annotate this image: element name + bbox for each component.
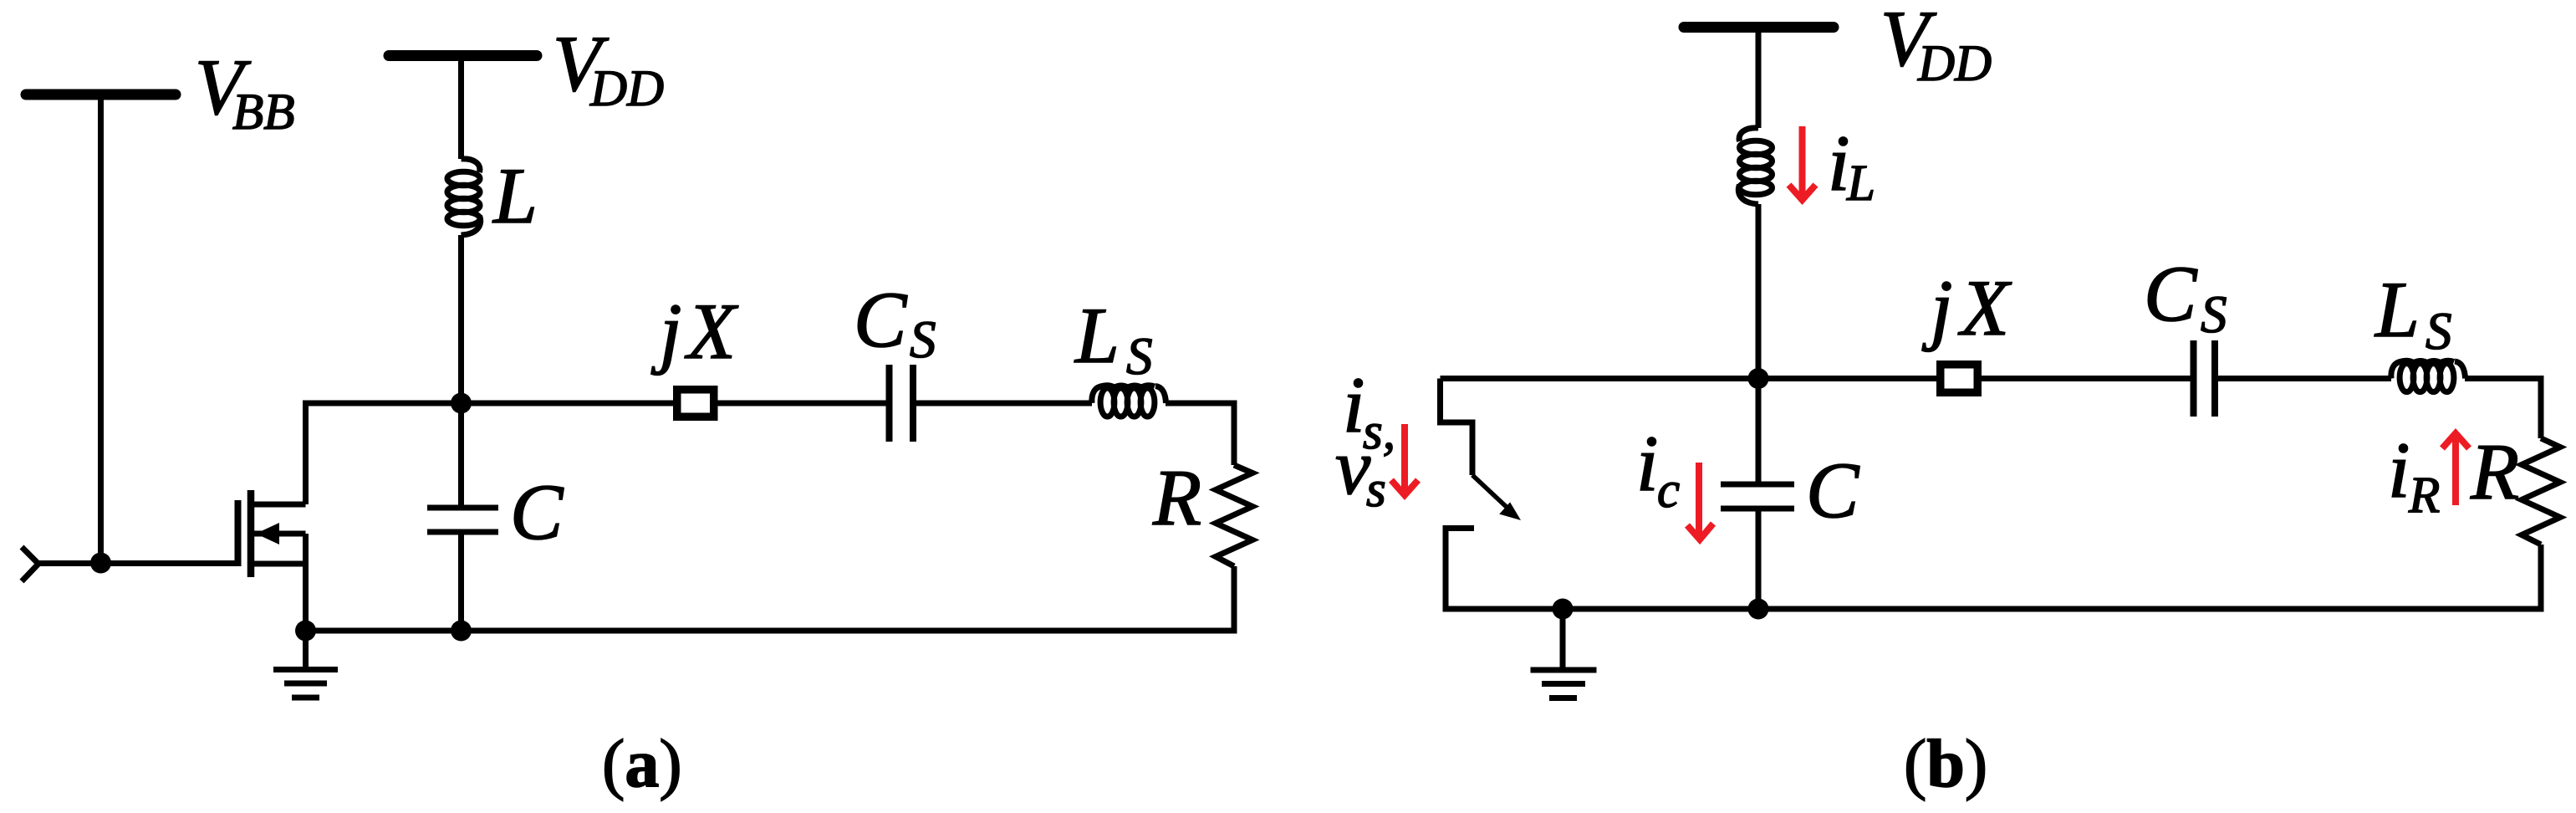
svg-text:X: X bbox=[1957, 263, 2012, 352]
jX box (a) bbox=[677, 390, 714, 417]
node C bottom dot (b) bbox=[1748, 599, 1769, 620]
VDD supply rail (a) bbox=[389, 50, 537, 61]
LS label (b) bbox=[2374, 265, 2452, 360]
svg-text:BB: BB bbox=[232, 84, 295, 141]
transistor M1 body arrow bbox=[256, 523, 279, 545]
switch upper terminal bbox=[1441, 379, 1473, 476]
transistor M1 source stub bbox=[251, 561, 306, 567]
svg-text:C: C bbox=[510, 468, 564, 556]
svg-text:S: S bbox=[1126, 327, 1153, 386]
wire VDD to inductor bbox=[458, 59, 464, 159]
VBB supply rail bbox=[26, 89, 176, 100]
svg-text:C: C bbox=[854, 275, 908, 364]
is label bbox=[1343, 360, 1395, 460]
wire right vertical top (a) bbox=[1232, 401, 1237, 466]
wire LS to corner (b) bbox=[2465, 376, 2544, 381]
wire inductor to node (b) bbox=[1756, 204, 1762, 379]
node C bottom dot bbox=[451, 621, 472, 642]
svg-text:L: L bbox=[492, 151, 538, 240]
svg-text:C: C bbox=[1806, 446, 1860, 534]
capacitor CS (b) bbox=[2194, 340, 2216, 417]
svg-text:X: X bbox=[684, 287, 739, 376]
switch blade bbox=[1472, 475, 1510, 510]
VBB label bbox=[195, 43, 295, 141]
resistor R (a) bbox=[1216, 465, 1252, 566]
wire source vertical bbox=[303, 534, 309, 631]
wire VDD to inductor (b) bbox=[1756, 31, 1762, 128]
inductor LS (b) bbox=[2391, 360, 2466, 391]
wire CS to LS (b) bbox=[2218, 376, 2391, 381]
svg-text:(b): (b) bbox=[1904, 725, 1987, 801]
wire LS to corner bbox=[1166, 401, 1237, 406]
switch blade arrowhead bbox=[1499, 502, 1521, 520]
CS label (b) bbox=[2144, 249, 2227, 344]
svg-text:R: R bbox=[1152, 453, 1201, 542]
capacitor CS (a) bbox=[890, 365, 914, 442]
VDD label (b) bbox=[1880, 0, 1992, 92]
svg-text:i: i bbox=[1636, 419, 1658, 508]
svg-text:i: i bbox=[2388, 426, 2410, 514]
wire CS to LS bbox=[916, 401, 1092, 406]
transistor M1 gate bar bbox=[235, 500, 242, 566]
node ground dot (b) bbox=[1553, 599, 1574, 620]
capacitor C (a) upper wire bbox=[458, 403, 464, 505]
LS label (a) bbox=[1074, 291, 1153, 386]
wire drain vertical bbox=[303, 401, 309, 505]
iL label bbox=[1828, 119, 1875, 212]
node drain dot (b) bbox=[1748, 368, 1769, 389]
svg-text:R: R bbox=[2470, 427, 2519, 516]
transistor M1 body stub bbox=[254, 531, 306, 537]
wire main horizontal (b) left part bbox=[1441, 376, 2191, 381]
svg-text:c: c bbox=[1657, 463, 1680, 519]
ic label bbox=[1636, 419, 1680, 519]
CS label (a) bbox=[854, 275, 936, 369]
resistor R (b) bbox=[2522, 438, 2560, 545]
current arrow is/vs bbox=[1391, 424, 1418, 495]
svg-text:S: S bbox=[2426, 302, 2452, 360]
switch lower terminal bbox=[1446, 529, 1474, 612]
inductor LS (a) bbox=[1092, 386, 1166, 417]
wire gate input bbox=[38, 560, 237, 566]
current arrow ic bbox=[1687, 463, 1713, 539]
ground (a) bbox=[273, 631, 338, 698]
capacitor C (b) lower wire bbox=[1756, 512, 1762, 610]
svg-text:(a): (a) bbox=[602, 725, 682, 801]
wire bottom (b) bbox=[1446, 606, 2544, 612]
capacitor C (a) plates bbox=[427, 508, 498, 532]
svg-text:S: S bbox=[2201, 285, 2227, 344]
current arrow iR bbox=[2442, 433, 2469, 505]
svg-text:C: C bbox=[2144, 249, 2198, 338]
transistor M1 channel bar bbox=[247, 490, 255, 577]
wire main horizontal (a) left part bbox=[306, 401, 887, 406]
svg-text:R: R bbox=[2408, 468, 2440, 524]
svg-text:L: L bbox=[2374, 265, 2420, 354]
wire right vertical top (b) bbox=[2538, 376, 2544, 438]
node drain dot bbox=[451, 393, 472, 414]
VDD label (a) bbox=[553, 19, 664, 117]
VDD supply rail (b) bbox=[1684, 22, 1834, 33]
svg-text:s: s bbox=[1366, 462, 1386, 518]
capacitor C (b) plates bbox=[1721, 484, 1794, 509]
node source dot bbox=[295, 621, 316, 642]
input terminal chevron bbox=[22, 547, 38, 581]
vs label bbox=[1335, 422, 1386, 518]
svg-text:L: L bbox=[1074, 291, 1120, 380]
wire inductor to node bbox=[458, 235, 464, 403]
svg-text:DD: DD bbox=[1917, 36, 1992, 92]
wire VBB vertical bbox=[98, 98, 104, 563]
current arrow iL bbox=[1789, 126, 1816, 200]
ground (b) bbox=[1531, 609, 1597, 698]
iR label bbox=[2388, 426, 2440, 524]
inductor L (b) bbox=[1738, 128, 1772, 204]
wire right vertical bottom (a) bbox=[1232, 566, 1237, 634]
wire bottom (a) bbox=[306, 628, 1237, 634]
capacitor C (a) lower wire bbox=[458, 535, 464, 631]
svg-text:DD: DD bbox=[589, 61, 664, 117]
capacitor C (b) upper wire bbox=[1756, 379, 1762, 482]
jX box (b) bbox=[1941, 365, 1978, 393]
inductor L (a) bbox=[447, 159, 481, 235]
svg-text:S: S bbox=[910, 310, 936, 369]
transistor M1 drain stub bbox=[251, 502, 306, 508]
svg-text:L: L bbox=[1846, 156, 1875, 212]
wire right vertical bottom (b) bbox=[2538, 545, 2544, 612]
node gate junction dot bbox=[90, 553, 111, 574]
